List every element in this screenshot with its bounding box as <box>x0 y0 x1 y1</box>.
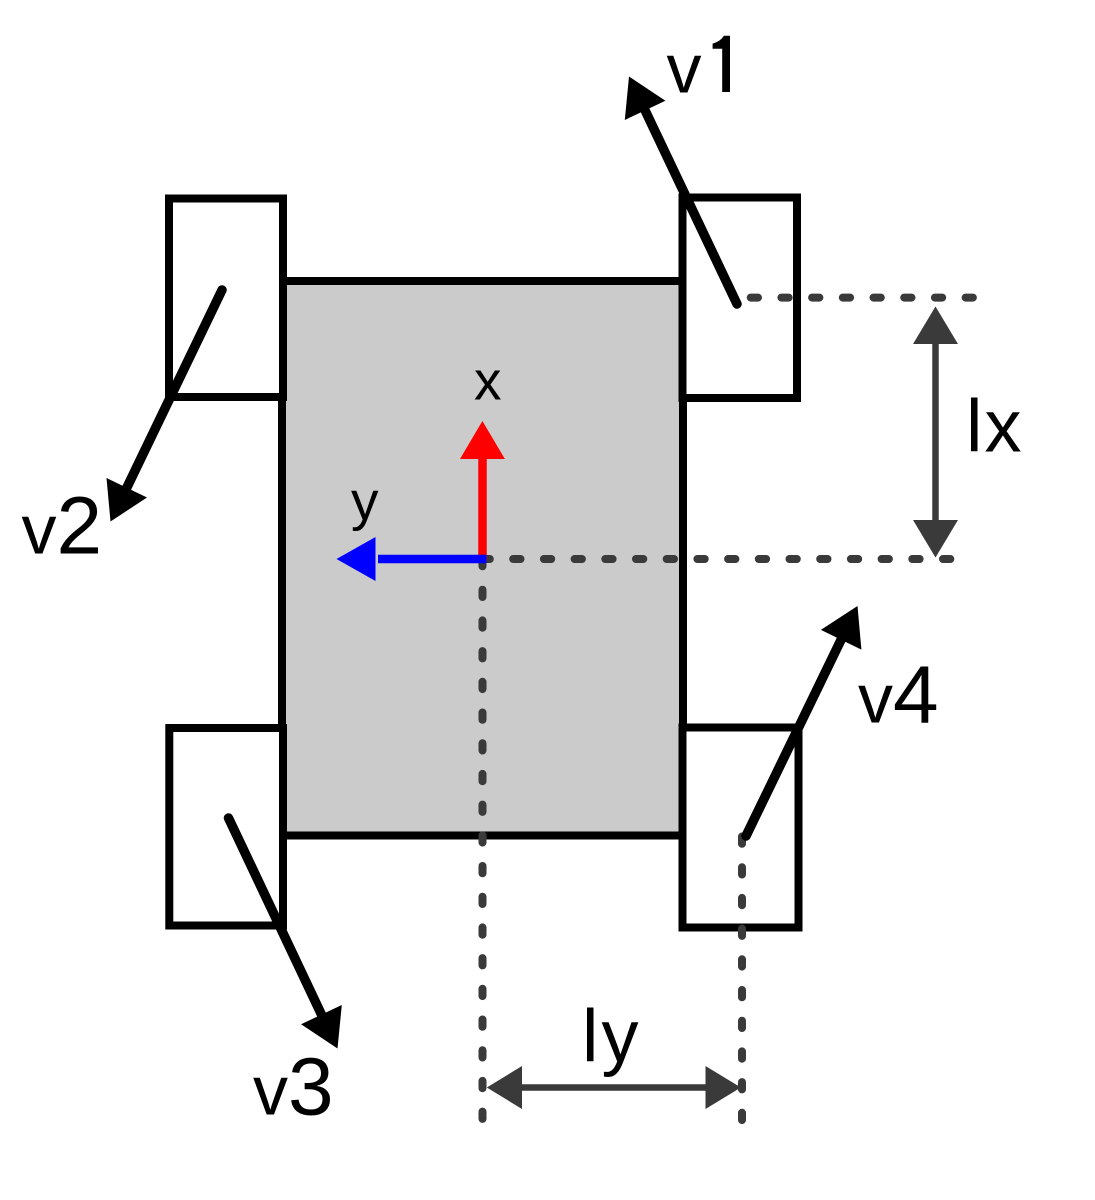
robot body <box>282 281 683 836</box>
svg-text:v2: v2 <box>22 481 103 572</box>
wheel front-left (top-left) <box>169 199 283 398</box>
label v1 <box>667 30 731 108</box>
svg-text:x: x <box>474 350 502 412</box>
svg-text:v4: v4 <box>858 650 939 741</box>
svg-text:lx: lx <box>966 385 1023 468</box>
dashed line: robot center horizontal (y=559) <box>483 555 954 563</box>
velocity arrow v1 <box>625 77 737 305</box>
dimension arrow ly (horizontal double-headed) <box>487 1066 741 1109</box>
velocity arrow v4 <box>746 606 861 836</box>
velocity arrow v3 <box>229 818 342 1049</box>
dimension arrow lx (vertical double-headed) <box>913 307 958 558</box>
x-axis arrow (red, up) <box>460 421 505 562</box>
dashed line: front wheel axle level (y=297.5) <box>751 294 975 302</box>
velocity arrow v2 <box>107 290 223 522</box>
wheel rear-right (bottom-right) <box>683 728 799 928</box>
svg-text:y: y <box>351 470 379 532</box>
svg-text:v3: v3 <box>253 1042 334 1133</box>
wheel front-right (top-right) <box>683 198 798 399</box>
svg-text:ly: ly <box>582 995 641 1078</box>
dashed line: robot center vertical (x=482.5) <box>479 559 487 1124</box>
dashed line: right wheel center vertical (x=741) <box>738 837 746 1125</box>
svg-text:v: v <box>667 30 702 108</box>
y-axis arrow (blue, left) <box>337 537 487 581</box>
wheel rear-left (bottom-left) <box>169 728 283 926</box>
